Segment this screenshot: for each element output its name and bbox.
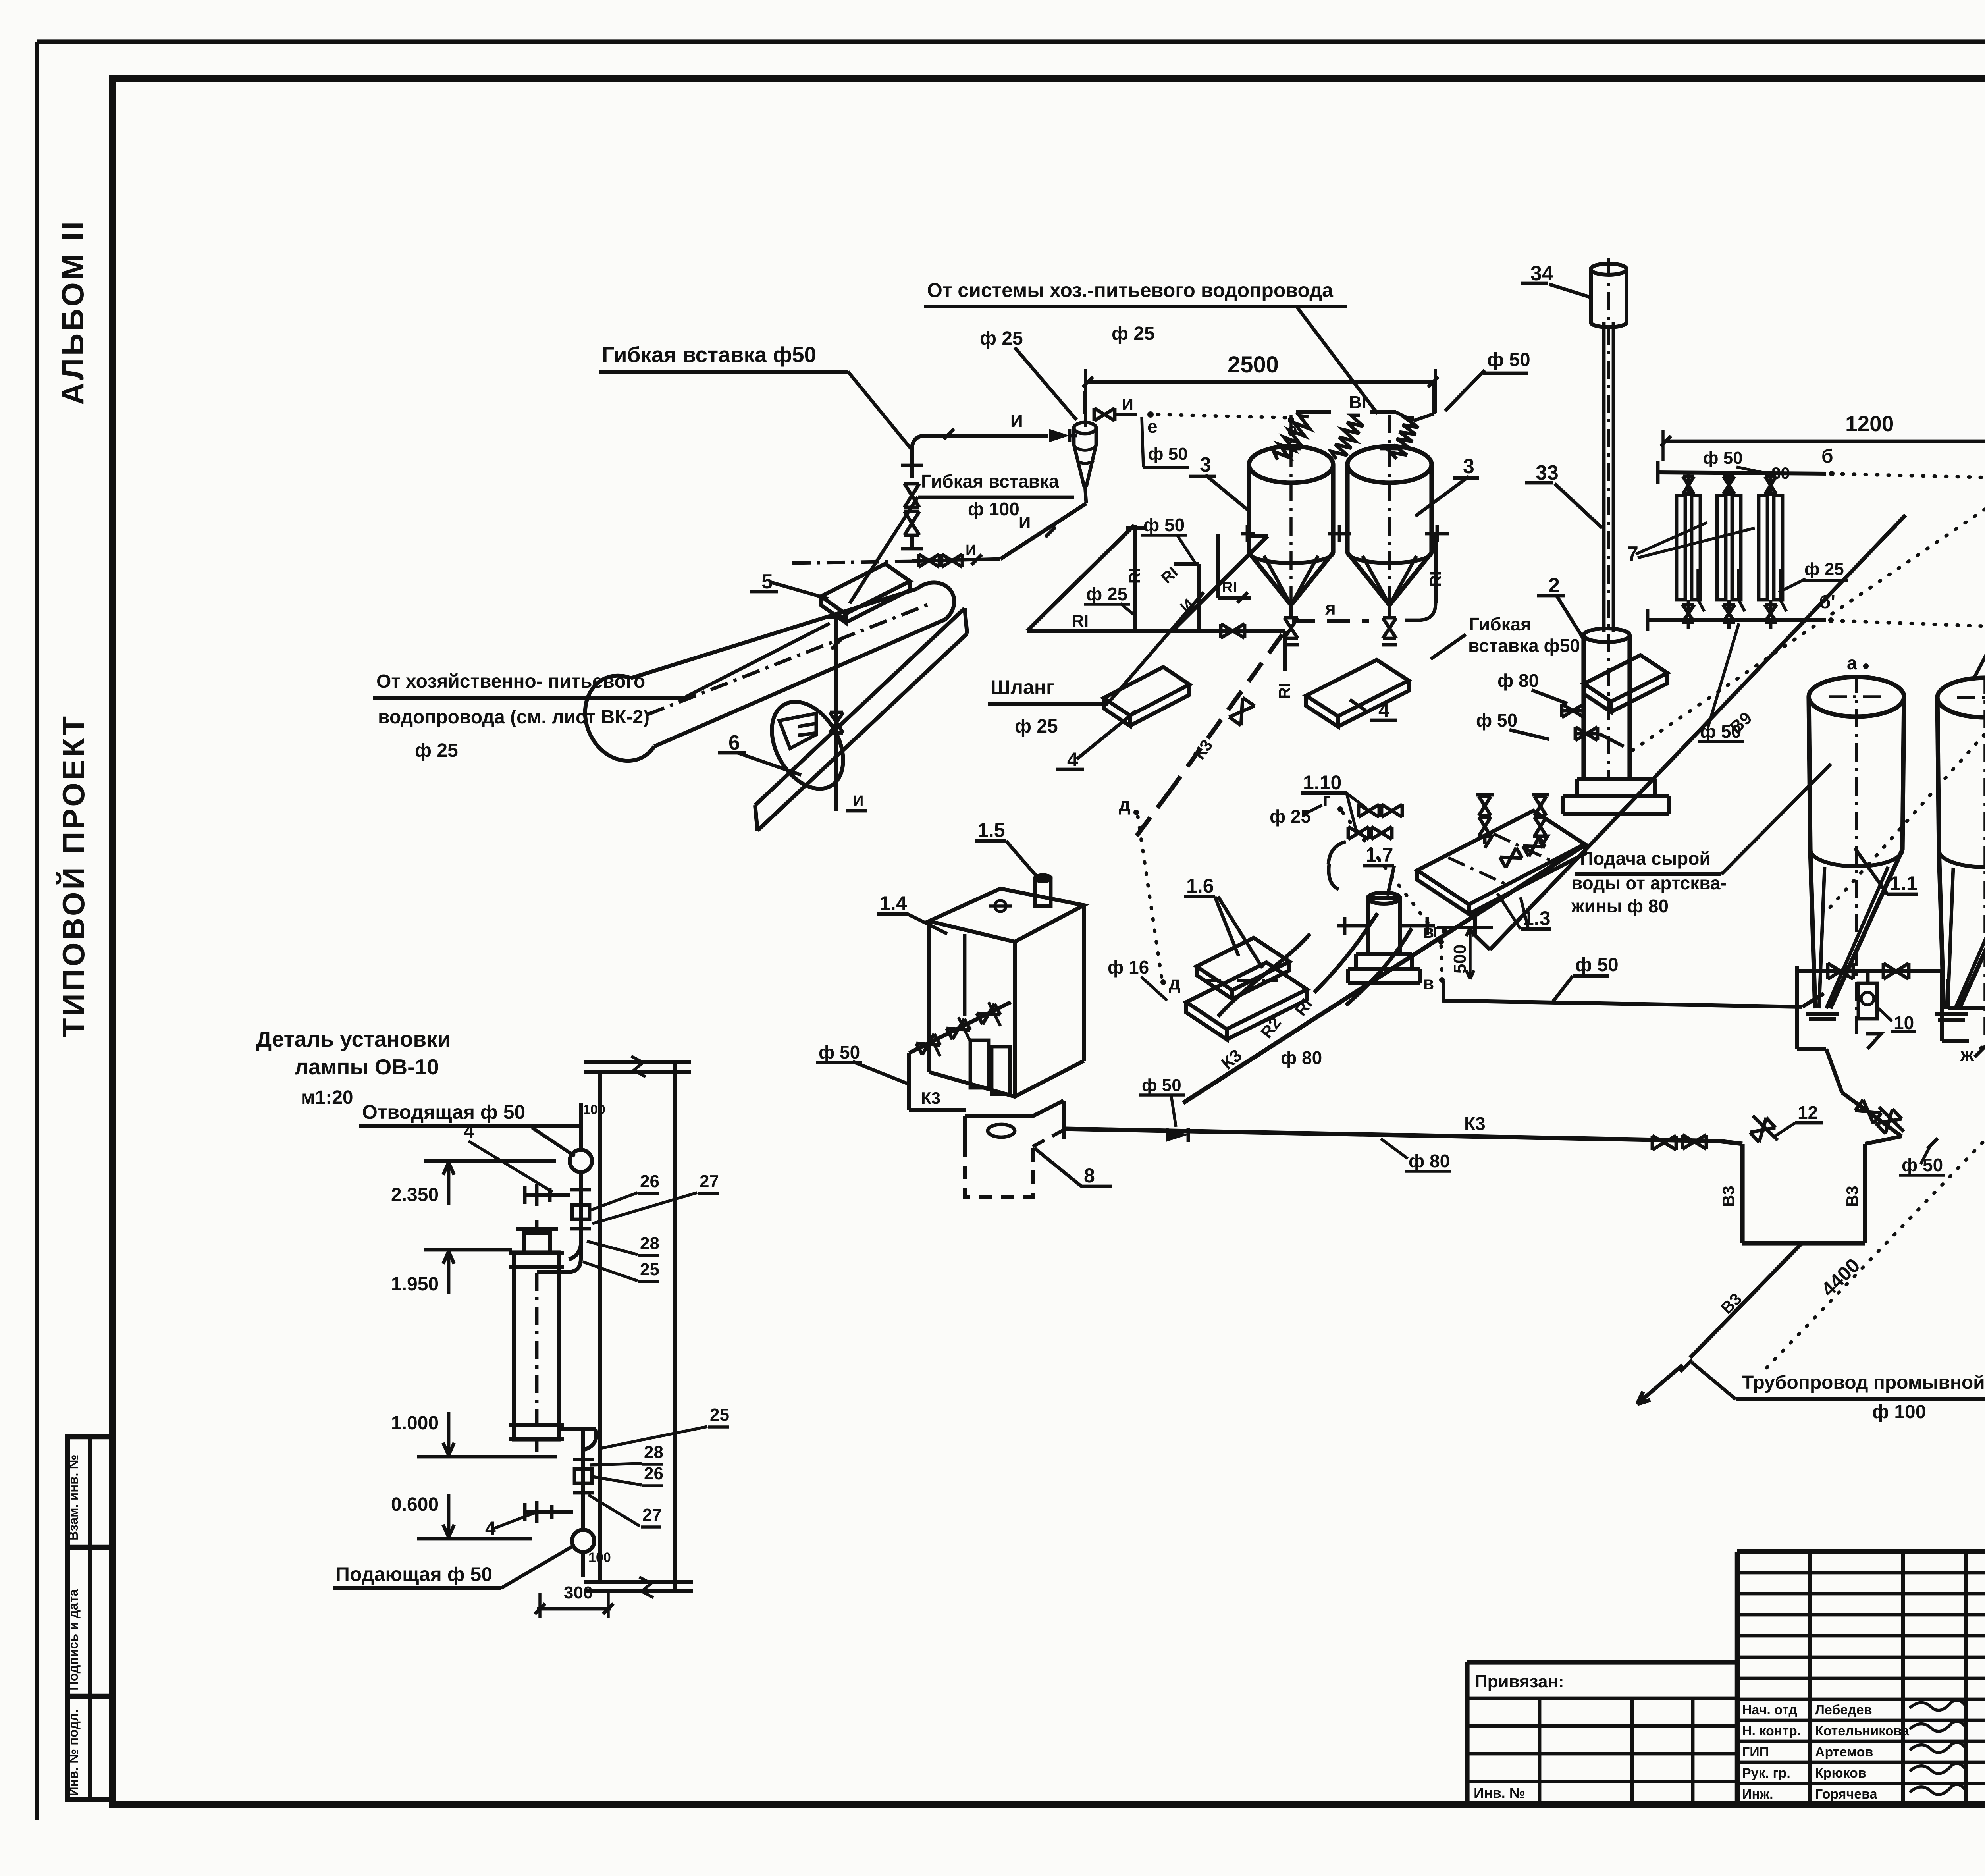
svg-text:В3: В3 — [1843, 1186, 1862, 1207]
svg-text:12: 12 — [1798, 1102, 1818, 1123]
svg-text:ж: ж — [1960, 1044, 1974, 1065]
svg-text:е: е — [1147, 416, 1158, 437]
svg-text:ф 50: ф 50 — [1142, 1076, 1181, 1095]
svg-text:б: б — [1821, 446, 1833, 467]
svg-text:Крюков: Крюков — [1815, 1766, 1866, 1781]
svg-text:ф 25: ф 25 — [1112, 323, 1155, 344]
svg-text:Деталь установки: Деталь установки — [256, 1027, 451, 1051]
svg-text:1.7: 1.7 — [1366, 844, 1393, 866]
svg-text:Инв. №: Инв. № — [1474, 1785, 1525, 1801]
svg-text:вставка ф50: вставка ф50 — [1468, 635, 1580, 656]
svg-text:ф 25: ф 25 — [415, 740, 458, 761]
svg-text:ф 25: ф 25 — [1086, 584, 1127, 604]
svg-text:2500: 2500 — [1228, 352, 1279, 378]
svg-text:R2: R2 — [1257, 1013, 1285, 1041]
svg-text:ф 50: ф 50 — [1575, 954, 1619, 976]
svg-text:28: 28 — [644, 1442, 663, 1462]
svg-text:ВI: ВI — [1349, 393, 1366, 412]
svg-text:Подача сырой: Подача сырой — [1580, 848, 1711, 869]
svg-text:1.4: 1.4 — [879, 892, 907, 914]
svg-text:Инж.: Инж. — [1742, 1787, 1773, 1802]
svg-text:От системы хоз.-питьевого в: От системы хоз.-питьевого водопровода — [927, 279, 1334, 301]
svg-text:RI: RI — [1276, 683, 1293, 699]
svg-text:воды от артсква-: воды от артсква- — [1571, 873, 1727, 893]
svg-text:Артемов: Артемов — [1815, 1745, 1873, 1760]
svg-text:а: а — [1847, 653, 1857, 673]
svg-text:д: д — [1119, 794, 1130, 815]
svg-text:Горячева: Горячева — [1815, 1787, 1878, 1802]
svg-text:ф 100: ф 100 — [1872, 1402, 1926, 1423]
svg-text:RI: RI — [1158, 563, 1181, 587]
svg-text:И: И — [1019, 513, 1031, 532]
svg-text:И: И — [966, 542, 976, 559]
svg-text:0.600: 0.600 — [391, 1494, 439, 1515]
svg-text:1.5: 1.5 — [977, 819, 1005, 841]
svg-text:в: в — [1423, 973, 1434, 993]
svg-text:ф 25: ф 25 — [1270, 806, 1311, 827]
svg-text:К3: К3 — [1218, 1045, 1246, 1074]
svg-text:Н. контр.: Н. контр. — [1742, 1724, 1801, 1739]
svg-text:жины ф 80: жины ф 80 — [1571, 896, 1669, 916]
svg-text:В3: В3 — [1719, 1186, 1738, 1207]
svg-text:RI: RI — [1126, 568, 1144, 584]
svg-text:ф 25: ф 25 — [1015, 716, 1058, 737]
svg-text:27: 27 — [700, 1172, 719, 1191]
svg-text:26: 26 — [640, 1172, 659, 1191]
svg-text:Подпись и дата: Подпись и дата — [66, 1589, 81, 1691]
svg-text:И: И — [1010, 411, 1023, 431]
svg-text:10: 10 — [1894, 1012, 1914, 1033]
svg-text:Котельникова: Котельникова — [1815, 1724, 1910, 1739]
svg-text:водопровода (см. лист ВК-2): водопровода (см. лист ВК-2) — [378, 707, 649, 728]
svg-text:3: 3 — [1200, 453, 1211, 476]
svg-text:25: 25 — [640, 1260, 659, 1279]
svg-text:3: 3 — [1463, 455, 1474, 478]
svg-text:100: 100 — [588, 1550, 611, 1565]
svg-text:26: 26 — [644, 1464, 663, 1483]
svg-text:ф 80: ф 80 — [1497, 670, 1539, 691]
svg-text:500: 500 — [1450, 945, 1470, 974]
svg-text:Инв. № подл.: Инв. № подл. — [66, 1709, 81, 1796]
svg-text:Нач. отд: Нач. отд — [1742, 1702, 1797, 1718]
svg-text:ф 80: ф 80 — [1409, 1151, 1450, 1171]
svg-text:1.10: 1.10 — [1303, 771, 1341, 794]
svg-text:ф 50: ф 50 — [1476, 710, 1517, 731]
svg-text:я: я — [1325, 598, 1336, 619]
svg-text:д: д — [1169, 973, 1180, 993]
svg-text:Трубопровод промывной воды: Трубопровод промывной воды — [1742, 1372, 1985, 1393]
svg-text:ф 50: ф 50 — [1143, 515, 1185, 535]
svg-text:ф 50: ф 50 — [1487, 349, 1530, 370]
svg-text:ф 25: ф 25 — [980, 328, 1023, 349]
svg-text:4: 4 — [464, 1121, 474, 1142]
svg-text:м1:20: м1:20 — [301, 1087, 353, 1108]
svg-text:ф 50: ф 50 — [1703, 448, 1743, 468]
svg-text:25: 25 — [710, 1405, 729, 1425]
svg-text:Рук. гр.: Рук. гр. — [1742, 1766, 1790, 1781]
svg-text:Лебедев: Лебедев — [1815, 1702, 1872, 1718]
svg-text:4: 4 — [1067, 748, 1078, 771]
svg-text:И: И — [1122, 396, 1133, 413]
svg-text:Шланг: Шланг — [991, 676, 1054, 698]
svg-text:1.950: 1.950 — [391, 1274, 439, 1295]
svg-text:г: г — [1323, 789, 1330, 810]
svg-text:6: 6 — [728, 731, 740, 754]
svg-text:33: 33 — [1536, 461, 1559, 484]
svg-text:ф 25: ф 25 — [1804, 559, 1844, 579]
svg-text:Подающая ф 50: Подающая ф 50 — [335, 1563, 492, 1585]
svg-text:2.350: 2.350 — [391, 1184, 439, 1205]
svg-text:1200: 1200 — [1845, 411, 1894, 436]
svg-text:2: 2 — [1548, 574, 1560, 597]
svg-text:лампы ОВ-10: лампы ОВ-10 — [295, 1055, 439, 1079]
svg-text:К3: К3 — [921, 1089, 940, 1107]
svg-text:ф 50: ф 50 — [819, 1042, 860, 1062]
svg-text:АЛЬБОМ II: АЛЬБОМ II — [55, 219, 90, 405]
svg-text:в: в — [1423, 921, 1434, 942]
svg-text:ф 16: ф 16 — [1108, 957, 1149, 978]
svg-text:ГИП: ГИП — [1742, 1745, 1769, 1760]
svg-text:И: И — [853, 793, 863, 810]
svg-text:300: 300 — [564, 1583, 593, 1602]
svg-text:RI: RI — [1291, 995, 1316, 1020]
svg-text:RI: RI — [1427, 571, 1445, 587]
svg-text:28: 28 — [640, 1234, 659, 1253]
svg-text:RI: RI — [1222, 579, 1237, 596]
svg-text:Гибкая: Гибкая — [1469, 614, 1531, 634]
svg-text:34: 34 — [1530, 262, 1553, 285]
svg-text:Гибкая вставка ф50: Гибкая вставка ф50 — [602, 342, 816, 367]
svg-text:1.6: 1.6 — [1186, 875, 1214, 897]
svg-text:К3: К3 — [1464, 1113, 1486, 1134]
svg-text:Отводящая ф 50: Отводящая ф 50 — [362, 1101, 525, 1123]
svg-text:Привязан:: Привязан: — [1475, 1672, 1564, 1691]
svg-text:От хозяйственно- питьевого: От хозяйственно- питьевого — [376, 671, 645, 692]
svg-text:ф 50: ф 50 — [1902, 1155, 1943, 1175]
svg-text:Взам. инв. №: Взам. инв. № — [66, 1454, 81, 1541]
svg-text:100: 100 — [583, 1102, 605, 1117]
svg-text:1.000: 1.000 — [391, 1413, 439, 1434]
svg-text:27: 27 — [642, 1505, 662, 1525]
svg-text:ТИПОВОЙ ПРОЕКТ: ТИПОВОЙ ПРОЕКТ — [56, 714, 91, 1037]
svg-text:В3: В3 — [1717, 1289, 1745, 1317]
svg-text:Гибкая вставка: Гибкая вставка — [921, 471, 1059, 492]
svg-text:ф 50: ф 50 — [1148, 444, 1188, 464]
svg-text:4400: 4400 — [1817, 1254, 1864, 1301]
svg-text:ф 100: ф 100 — [968, 499, 1019, 519]
svg-text:1.1: 1.1 — [1890, 872, 1918, 895]
svg-text:4: 4 — [1378, 699, 1389, 721]
svg-text:8: 8 — [1084, 1165, 1095, 1187]
svg-text:ф 80: ф 80 — [1281, 1047, 1322, 1068]
svg-text:RI: RI — [1072, 611, 1089, 630]
